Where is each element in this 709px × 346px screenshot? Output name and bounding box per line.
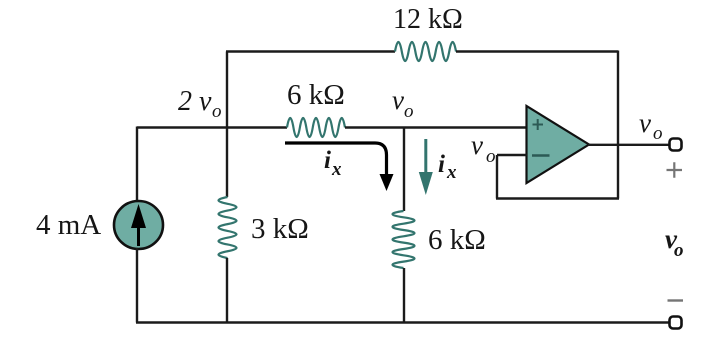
svg-text:o: o bbox=[212, 101, 222, 122]
wire vo branch vertical below 6k resistor bbox=[403, 268, 405, 323]
svg-text:o: o bbox=[653, 123, 663, 144]
wire op-amp output bbox=[588, 144, 670, 146]
svg-text:o: o bbox=[486, 146, 496, 167]
resistor R 6 kOhm (vertical squiggle) bbox=[393, 211, 415, 268]
svg-text:o: o bbox=[674, 240, 684, 261]
wire right vertical feedback bus bbox=[617, 51, 619, 199]
terminal output (open) bbox=[670, 139, 682, 151]
wire mid horizontal from resistor to op-amp + input bbox=[345, 126, 527, 128]
op-amp U1 bbox=[527, 106, 590, 183]
svg-text:6 kΩ: 6 kΩ bbox=[287, 79, 345, 111]
plus sign (output polarity) bbox=[667, 162, 683, 177]
wire feedback bottom horizontal bbox=[496, 197, 619, 199]
svg-text:i: i bbox=[324, 147, 331, 174]
wire inverting input stub bbox=[497, 154, 527, 156]
svg-text:i: i bbox=[438, 151, 445, 178]
wire left branch vertical above current source bbox=[136, 127, 138, 203]
wire bottom rail bbox=[136, 321, 670, 323]
wire top-left vertical from node 2vo up to 12k branch bbox=[226, 52, 228, 128]
wire 3k branch vertical below resistor bbox=[226, 258, 228, 323]
current arrow ix (teal, into 6k) bbox=[424, 139, 427, 175]
wire top horizontal left segment to 12k resistor bbox=[226, 50, 395, 52]
svg-text:6 kΩ: 6 kΩ bbox=[428, 224, 486, 256]
minus sign (output polarity) bbox=[668, 299, 684, 301]
svg-text:2 v: 2 v bbox=[178, 86, 212, 117]
resistor R 6 kOhm (horizontal squiggle) bbox=[287, 118, 345, 137]
resistor R 12 kOhm (horizontal squiggle) bbox=[395, 42, 456, 61]
wire mid horizontal from left branch to 6k resistor bbox=[137, 126, 287, 128]
svg-text:v: v bbox=[471, 130, 483, 160]
wire feedback left vertical bbox=[496, 155, 498, 199]
svg-text:x: x bbox=[331, 159, 342, 180]
svg-text:3 kΩ: 3 kΩ bbox=[251, 213, 309, 245]
wire top horizontal right segment bbox=[456, 50, 618, 52]
svg-text:12 kΩ: 12 kΩ bbox=[393, 4, 463, 35]
svg-text:o: o bbox=[404, 101, 414, 122]
wire left branch vertical below current source bbox=[136, 248, 138, 323]
svg-text:4 mA: 4 mA bbox=[36, 209, 101, 241]
current source I1 4 mA bbox=[114, 201, 163, 249]
svg-text:v: v bbox=[392, 85, 404, 115]
resistor R 3 kOhm (vertical squiggle) bbox=[219, 197, 237, 258]
svg-text:x: x bbox=[446, 162, 457, 183]
svg-text:v: v bbox=[639, 108, 651, 138]
terminal bottom (open) bbox=[670, 317, 682, 329]
current arrow ix (black curved) bbox=[285, 143, 387, 177]
wire vo branch vertical above 6k resistor bbox=[403, 127, 405, 212]
wire 3k branch vertical above resistor bbox=[226, 127, 228, 198]
